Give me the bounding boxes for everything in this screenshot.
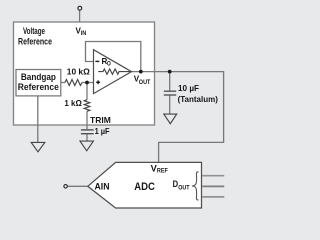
svg-text:O: O <box>107 61 111 68</box>
svg-text:10 kΩ: 10 kΩ <box>67 66 90 76</box>
svg-text:Voltage: Voltage <box>23 26 45 36</box>
svg-text:Reference: Reference <box>18 82 59 93</box>
svg-text:Reference: Reference <box>18 36 52 46</box>
svg-text:ADC: ADC <box>134 181 155 193</box>
svg-text:OUT: OUT <box>178 184 190 191</box>
svg-text:IN: IN <box>81 30 87 37</box>
svg-text:1 µF: 1 µF <box>95 126 110 136</box>
svg-text:(Tantalum): (Tantalum) <box>178 95 219 104</box>
svg-text:OUT: OUT <box>139 79 151 86</box>
svg-text:V: V <box>151 164 157 174</box>
svg-text:AIN: AIN <box>95 181 110 191</box>
svg-text:TRIM: TRIM <box>90 115 111 125</box>
svg-text:REF: REF <box>157 168 168 175</box>
svg-text:1 kΩ: 1 kΩ <box>64 98 82 108</box>
svg-text:10 µF: 10 µF <box>178 83 199 93</box>
